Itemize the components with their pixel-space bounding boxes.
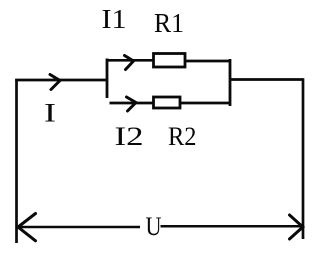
wire: top branch segment to R1	[107, 59, 153, 62]
voltage dimension line U (right segment)	[161, 225, 303, 228]
wire: top main horizontal conductor	[15, 79, 107, 82]
resistor R1	[154, 54, 186, 68]
current arrow I1	[125, 56, 134, 70]
resistor R2	[154, 97, 181, 108]
current arrow I2	[127, 97, 137, 111]
wire: from R1 to right junction	[185, 60, 230, 63]
svg-text:R1: R1	[154, 8, 184, 38]
arrowhead: right end of U line	[290, 215, 303, 239]
wire: exit horizontal conductor	[230, 78, 303, 81]
wire: left vertical conductor	[15, 79, 18, 243]
wire: from R2 to right junction	[180, 102, 230, 105]
svg-text:R2: R2	[168, 121, 197, 151]
node: right junction bar	[229, 59, 232, 106]
wire: right vertical conductor	[302, 78, 305, 239]
wire: bottom branch segment to R2	[110, 102, 154, 105]
svg-text:I: I	[44, 98, 56, 128]
current arrow I on main wire	[50, 75, 60, 90]
svg-text:I2: I2	[115, 121, 144, 151]
node: left junction bar	[106, 59, 109, 99]
svg-text:I1: I1	[102, 4, 127, 34]
arrowhead: left end of U line	[18, 214, 36, 241]
svg-text:U: U	[146, 211, 162, 241]
voltage dimension line U (left segment)	[18, 226, 140, 229]
